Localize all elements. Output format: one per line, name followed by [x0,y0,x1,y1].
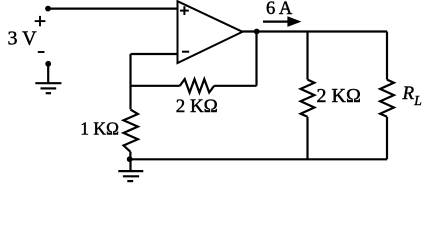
svg-text:2 KΩ: 2 KΩ [317,85,361,107]
wire (inverting node lead into resistor R1) [129,108,131,110]
wire (source + terminal to op-amp non-inverting input) [48,8,178,10]
wire (ground node stub) [129,159,131,171]
wire (source - terminal to ground) [47,64,49,83]
resistor RL (vertical zigzag) [380,80,394,117]
resistor R2 2 KOhm (feedback, horizontal zigzag) [180,79,214,92]
op-amp U1 minus input label [182,51,189,53]
ground (bottom, below R1) [118,171,143,181]
wire (RL branch, bottom lead) [386,117,388,160]
resistor R1 1 KOhm (vertical zigzag) [124,110,138,152]
wire (inverting input horizontal) [131,53,178,55]
svg-text:L: L [413,93,422,108]
wire (feedback vertical up to output node) [255,32,257,86]
wire (op-amp output to right rail) [243,30,388,32]
wire (feedback left segment) [131,85,180,87]
wire (feedback right segment) [214,85,256,87]
wire (R1 bottom lead to ground node) [129,152,132,159]
svg-text:2 KΩ: 2 KΩ [176,96,218,117]
wire (2 KOhm load branch, top lead) [306,32,308,80]
op-amp U1 [178,1,243,63]
svg-text:3 V: 3 V [8,28,38,50]
current direction arrow [263,16,301,27]
wire (2 KOhm load branch, bottom lead) [306,117,308,160]
wire (bottom rail) [130,158,387,160]
ground (left, below source) [35,83,61,93]
op-amp U1 plus input label [180,6,189,15]
svg-text:1 KΩ: 1 KΩ [80,119,119,139]
voltage source V1 plus sign [35,16,46,26]
node B (source - terminal dot) [45,61,51,67]
node D (bottom ground node dot) [127,156,133,162]
wire (inverting node vertical down to resistor R1) [129,54,131,109]
svg-text:R: R [402,83,415,104]
voltage source V1 minus sign [38,51,45,53]
node C (output node dot) [254,29,260,35]
node A (source + terminal dot) [45,6,51,12]
wire (RL branch, top lead) [386,32,388,80]
resistor R3 2 KOhm (load, vertical zigzag) [301,80,315,117]
svg-text:6 A: 6 A [266,0,293,19]
